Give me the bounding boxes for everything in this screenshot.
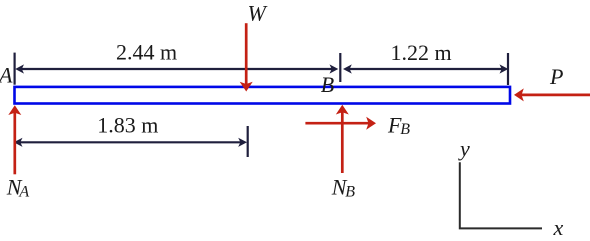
force N_B arrow (up): [341, 112, 344, 173]
dimension 2.44 m line: [21, 68, 332, 70]
coordinate axes: [460, 162, 542, 228]
dimension 1.22 m line: [349, 68, 502, 70]
force W arrow (down): [245, 23, 248, 84]
svg-text:y: y: [458, 136, 470, 161]
svg-text:1.22 m: 1.22 m: [391, 40, 452, 65]
dimension 1.83 m line: [20, 141, 242, 143]
node A tick: [14, 53, 16, 85]
svg-text:P: P: [549, 64, 563, 89]
svg-text:A: A: [0, 62, 13, 87]
right end tick: [507, 53, 509, 85]
1.83 m right tick: [247, 126, 249, 157]
force P arrow (left): [522, 94, 590, 97]
beam (blue rectangle): [15, 87, 511, 104]
svg-text:B: B: [345, 183, 355, 200]
svg-text:B: B: [400, 121, 410, 138]
svg-text:W: W: [248, 0, 268, 25]
force N_A arrow (up): [13, 113, 16, 175]
svg-text:x: x: [553, 215, 564, 240]
svg-text:A: A: [18, 183, 29, 200]
svg-text:1.83 m: 1.83 m: [97, 113, 158, 138]
node B tick: [339, 53, 341, 82]
svg-text:2.44 m: 2.44 m: [116, 40, 177, 65]
force F_B arrow (right): [305, 122, 368, 125]
svg-text:B: B: [321, 72, 334, 97]
